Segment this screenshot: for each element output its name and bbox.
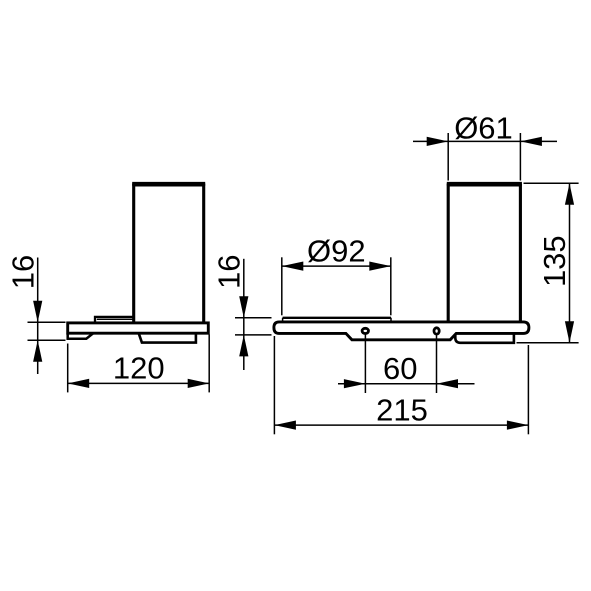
side view: holder plate — [68, 323, 209, 333]
svg-text:Ø92: Ø92 — [307, 234, 366, 269]
dimension Ø61: extension lines — [413, 133, 557, 181]
dimension 16 right: dimension line — [243, 259, 245, 370]
dimension Ø92: arrows (inside, pointing out) — [282, 262, 304, 271]
dimension Ø61: dimension line — [413, 140, 557, 142]
dimension 120: dimension line — [68, 382, 210, 384]
svg-text:Ø61: Ø61 — [454, 110, 513, 145]
dimension 16 left: dimension line — [37, 258, 39, 375]
svg-text:120: 120 — [113, 351, 165, 386]
dimension 120: arrows (inside, pointing out) — [68, 379, 90, 388]
svg-text:60: 60 — [383, 351, 417, 386]
dimension 16 left: arrows (outside, pointing in) — [33, 301, 42, 323]
svg-text:215: 215 — [376, 392, 428, 427]
dimension 120: extension lines — [68, 335, 210, 393]
dimension Ø61: arrows (outside, pointing in) — [427, 137, 449, 146]
side view: wall rail hook below plate — [68, 333, 93, 339]
dimension 135: arrows (inside, pointing out) — [565, 183, 574, 205]
side view: glass lip below plate — [139, 334, 196, 343]
dimension 215: arrows (inside, pointing out) — [274, 421, 296, 430]
dimension 16 right: extension lines — [235, 259, 272, 370]
dimension 135: extension lines — [517, 183, 579, 343]
front view: glass lip bar below plate — [455, 334, 514, 343]
dimension 215: extension lines — [274, 336, 528, 434]
dimension 215: dimension line — [274, 424, 528, 426]
front view: holder plate with rounded ends and center step — [274, 322, 529, 340]
dimension Ø92: dimension line — [282, 265, 391, 267]
dimension 60: extension lines — [338, 335, 475, 394]
front view: screw hole left — [362, 328, 368, 333]
dimension 16 right: arrows (outside, pointing in) — [239, 296, 248, 318]
svg-text:16: 16 — [211, 255, 246, 289]
dimension Ø92: extension lines — [282, 257, 391, 315]
svg-text:16: 16 — [6, 255, 41, 289]
dimension 16 left: extension lines — [28, 258, 66, 375]
front view: screw hole right — [434, 328, 439, 334]
side view: crystal ring ledge (tab) — [95, 317, 134, 322]
front view: crystal ring edge-on band — [283, 318, 391, 321]
front view: tumbler (glass) outline — [447, 184, 522, 322]
side view: tumbler (glass) outline — [132, 184, 205, 323]
dimension 135: dimension line — [569, 183, 571, 343]
svg-text:135: 135 — [537, 235, 572, 287]
dimension 60: dimension line — [338, 383, 475, 385]
dimension 60: arrows (outside, pointing in) — [344, 379, 366, 388]
